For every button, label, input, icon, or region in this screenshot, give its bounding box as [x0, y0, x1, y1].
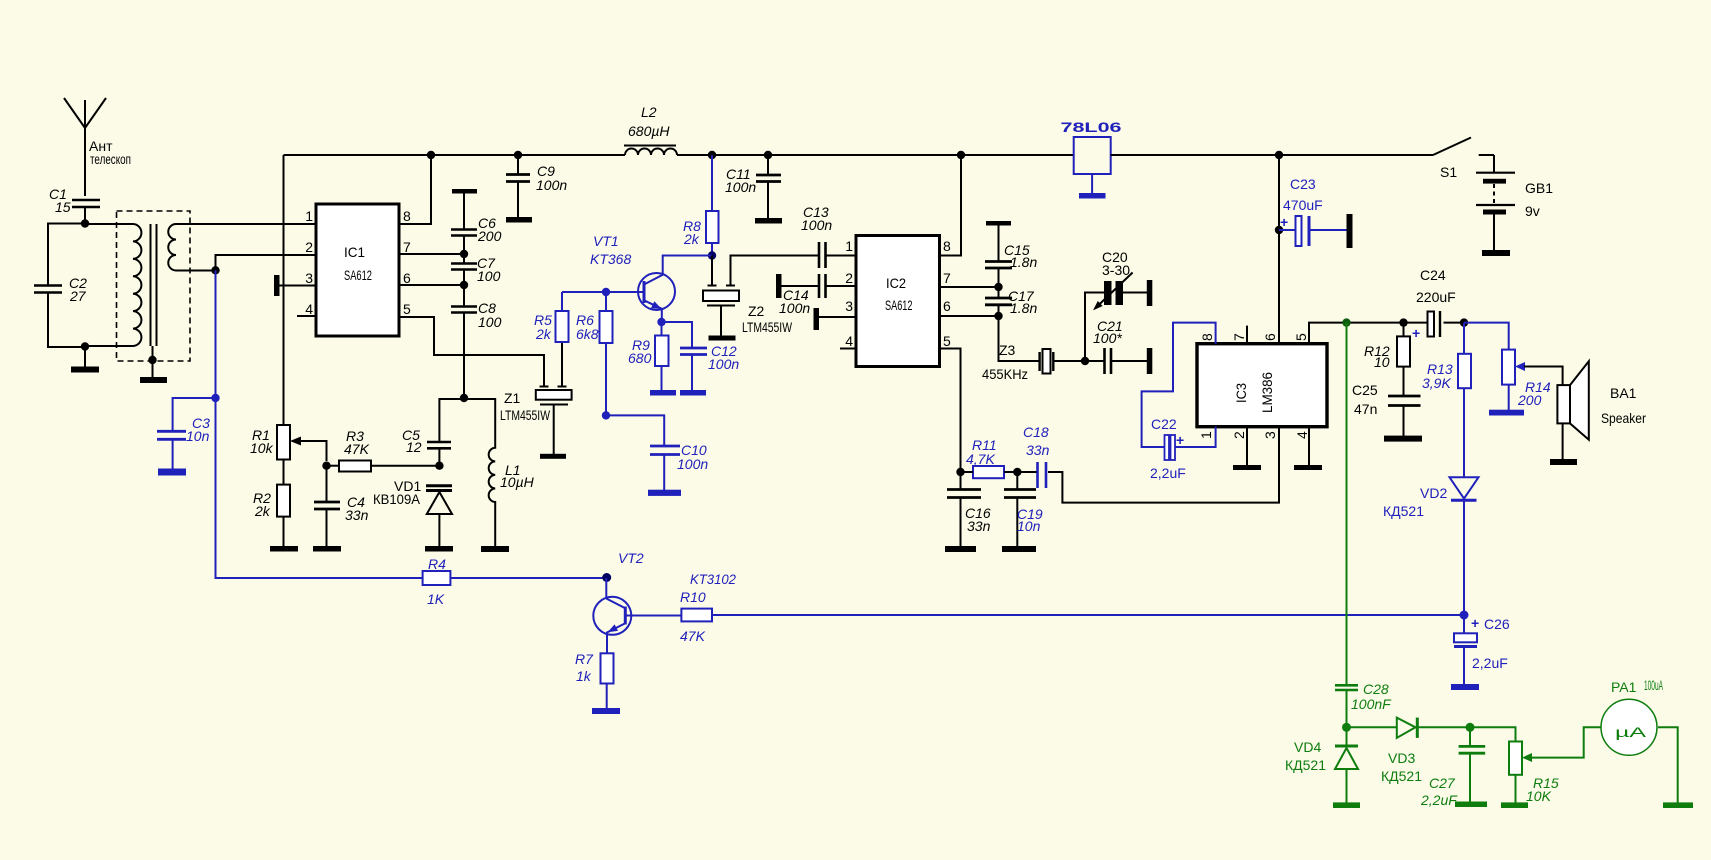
node rail/R8 [708, 151, 716, 159]
potentiometer R1 10k [250, 425, 327, 461]
svg-text:R7: R7 [575, 651, 594, 667]
svg-text:9v: 9v [1525, 203, 1540, 219]
wire IC3 pin4 to ground [1308, 427, 1310, 466]
svg-text:KT3102: KT3102 [690, 571, 736, 587]
wire R14 wiper to speaker [1524, 367, 1563, 386]
ground R7 (blue) [592, 708, 620, 714]
svg-text:7: 7 [943, 270, 951, 286]
ground C11 [755, 218, 782, 224]
svg-text:L2: L2 [641, 104, 657, 120]
svg-text:S1: S1 [1440, 164, 1457, 180]
capacitor C27 2,2uF [1420, 727, 1485, 808]
antenna Ант телескоп [64, 98, 131, 196]
capacitor C8 100 [451, 285, 502, 398]
svg-text:8: 8 [1199, 333, 1215, 341]
svg-text:100n: 100n [801, 217, 832, 233]
IC3 box LM386 [1197, 344, 1327, 427]
ceramic filter Z1 LTM455IW [500, 343, 572, 455]
resistor R2 2k [253, 460, 290, 547]
IC3 pin numbers [1198, 333, 1310, 439]
svg-text:+: + [1412, 325, 1420, 341]
svg-text:10n: 10n [186, 428, 210, 444]
svg-text:8: 8 [403, 208, 411, 224]
svg-text:3: 3 [845, 298, 853, 314]
svg-text:47K: 47K [344, 441, 370, 457]
transistor VT1 KT368 [562, 233, 712, 322]
svg-text:1: 1 [1198, 431, 1214, 439]
svg-text:3: 3 [1262, 431, 1278, 439]
capacitor C11 100n [725, 151, 781, 219]
wire IC1 pin6 to C8 node [399, 284, 464, 286]
svg-text:КД521: КД521 [1383, 503, 1424, 519]
svg-text:+: + [1280, 214, 1288, 230]
svg-text:33n: 33n [1026, 442, 1050, 458]
ground 78L06 (blue) [1079, 193, 1106, 199]
ground C3 (blue) [158, 469, 186, 476]
inductor L2 680uH [624, 104, 677, 155]
svg-text:1.8n: 1.8n [1010, 300, 1037, 316]
node green takeoff [1342, 318, 1350, 326]
resistor R13 3,9K [1422, 323, 1471, 478]
svg-text:100n: 100n [708, 356, 739, 372]
node R4/R6/VT2 base [602, 573, 611, 582]
ground meter (green) [1663, 802, 1693, 808]
ground C12 (blue) [680, 390, 706, 396]
varicap VD1 KB109A [373, 478, 452, 547]
node C24/R13/R14 [1460, 318, 1468, 326]
node antenna/C1/C2/primary [81, 219, 89, 227]
node C28/VD4/VD3 [1342, 723, 1351, 732]
node pin6/C17/Z3 [994, 312, 1002, 320]
svg-text:100n: 100n [725, 179, 756, 195]
node R12 [1399, 318, 1407, 326]
svg-text:VD4: VD4 [1294, 739, 1321, 755]
resistor R7 1k [575, 651, 614, 709]
node VD3/C27/R15 [1466, 723, 1475, 732]
svg-text:КД521: КД521 [1381, 768, 1422, 784]
resistor R6 6k8 [576, 292, 613, 415]
svg-text:LM386: LM386 [1259, 372, 1275, 413]
svg-text:Z3: Z3 [999, 342, 1016, 358]
svg-text:C18: C18 [1023, 424, 1049, 440]
wire IC2 pin6 to C17 [940, 315, 999, 317]
capacitor C15 1.8n [985, 225, 1037, 287]
wire R10 to C26 node (long) [712, 614, 1464, 616]
svg-text:C26: C26 [1484, 616, 1510, 632]
svg-text:Z2: Z2 [748, 303, 765, 319]
svg-text:47K: 47K [680, 628, 706, 644]
wire C2 bottom to ground node [48, 293, 85, 347]
svg-text:100: 100 [478, 314, 502, 330]
svg-text:2,2uF: 2,2uF [1150, 465, 1186, 481]
wire IC3 pin3 to C18 [1048, 427, 1279, 503]
svg-text:100nF: 100nF [1351, 696, 1392, 712]
svg-text:1K: 1K [427, 591, 445, 607]
wire secondary bottom to IC1 pin2 [216, 255, 317, 270]
capacitor C6 200 [451, 193, 502, 254]
svg-text:5: 5 [943, 333, 951, 349]
ground VD1 [425, 546, 453, 552]
terminal plate C23 [1347, 214, 1353, 248]
svg-text:2k: 2k [254, 503, 271, 519]
wire IC1 pin8 to rail [399, 155, 431, 224]
IC2 pin4 stub [840, 348, 856, 350]
svg-text:2: 2 [845, 270, 853, 286]
capacitor C18 33n [1017, 424, 1049, 488]
svg-text:µA: µA [1615, 724, 1647, 740]
resistor R9 680 [628, 322, 669, 391]
transformer core [151, 224, 157, 346]
ground C10 (blue) [648, 490, 681, 496]
trimmer capacitor C20 3-30 [1085, 249, 1147, 361]
svg-text:C24: C24 [1420, 267, 1446, 283]
node R6/C10 branch [602, 411, 610, 419]
ground C27 (green) [1455, 802, 1487, 808]
svg-text:R10: R10 [680, 589, 706, 605]
svg-text:6: 6 [1262, 333, 1278, 341]
svg-text:VT1: VT1 [593, 233, 619, 249]
svg-text:680µH: 680µH [628, 123, 670, 139]
svg-text:6k8: 6k8 [576, 326, 599, 342]
battery GB1 9v [1476, 155, 1553, 251]
wire node down to C3 node (blue) [215, 270, 217, 398]
svg-text:КД521: КД521 [1285, 757, 1326, 773]
wire IC3 pin5 to output node [1309, 323, 1404, 344]
ground IC3 pin4 [1294, 465, 1322, 470]
svg-text:PA1: PA1 [1611, 679, 1637, 695]
svg-text:4,7K: 4,7K [966, 451, 995, 467]
svg-text:100n: 100n [779, 300, 810, 316]
ground C9 [506, 217, 532, 223]
node pin7/C6/C7 [460, 250, 468, 258]
svg-text:100n: 100n [677, 456, 708, 472]
node C26/VD2/long wire [1460, 611, 1469, 620]
wire IC3 pin2 to ground [1246, 427, 1248, 466]
svg-text:2,2uF: 2,2uF [1420, 792, 1458, 808]
IC2 box SA612 [856, 236, 940, 367]
node transformer shield [148, 356, 156, 364]
svg-text:2: 2 [305, 239, 313, 255]
power bar above C6 [452, 189, 477, 194]
IC1 pin3 bypass plate [274, 275, 316, 296]
speaker BA1 [1557, 361, 1646, 459]
svg-text:3-30: 3-30 [1102, 262, 1130, 278]
svg-text:1: 1 [305, 208, 313, 224]
svg-text:10µH: 10µH [500, 474, 535, 490]
svg-text:15: 15 [55, 199, 71, 215]
svg-text:Speaker: Speaker [1601, 410, 1646, 426]
capacitor C19 10n [1004, 472, 1043, 547]
svg-text:LTM455IW: LTM455IW [742, 319, 793, 335]
svg-text:КВ109А: КВ109А [373, 491, 421, 507]
svg-text:78L06: 78L06 [1061, 119, 1122, 135]
ground C25 [1384, 436, 1422, 442]
capacitor C10 100n [606, 415, 708, 490]
inductor L1 10uH [464, 399, 535, 547]
wire meter to ground [1658, 727, 1678, 803]
resistor R11 4,7K [961, 437, 1018, 478]
resistor R8 2k [683, 155, 719, 256]
potentiometer R15 10K [1470, 727, 1602, 804]
svg-text:7: 7 [1231, 333, 1247, 341]
svg-text:C22: C22 [1151, 416, 1177, 432]
svg-text:4: 4 [845, 333, 853, 349]
node IC2 pin5/R11/C16 [956, 468, 964, 476]
ground C26 (blue) [1451, 684, 1479, 690]
svg-text:3,9K: 3,9K [1422, 375, 1451, 391]
IC2 pin numbers [845, 238, 951, 349]
ground Z1 [540, 454, 566, 459]
capacitor C5 12 [402, 399, 464, 466]
node C8/C5/L1 [460, 394, 468, 402]
node IC2 pin8 riser on rail [957, 151, 965, 159]
svg-text:+: + [1176, 432, 1184, 448]
wire down to Z3 [999, 316, 1040, 361]
wire +9V rail mid segment [677, 154, 1074, 156]
resistor R10 47K [680, 589, 712, 644]
wire IC3 pin8 to C22 [1142, 323, 1216, 447]
voltage regulator 78L06 [1061, 119, 1122, 194]
svg-text:телескоп: телескоп [90, 151, 131, 167]
resistor R4 1K [423, 556, 607, 607]
svg-text:10: 10 [1374, 354, 1390, 370]
svg-text:12: 12 [406, 439, 422, 455]
ground R15 (green) [1501, 802, 1528, 808]
svg-text:IC3: IC3 [1233, 383, 1249, 403]
node R11/C19/C18 [1013, 468, 1021, 476]
svg-text:LTM455IW: LTM455IW [500, 407, 551, 423]
potentiometer R14 200 [1464, 323, 1551, 410]
ground GB1 [1482, 250, 1510, 256]
svg-text:200: 200 [477, 228, 502, 244]
svg-text:220uF: 220uF [1416, 289, 1456, 305]
capacitor C2 27 [34, 275, 87, 304]
ground L1 [481, 546, 509, 552]
ground [71, 347, 99, 373]
capacitor C17 1.8n [985, 287, 1037, 316]
power bar above C15 [986, 221, 1011, 226]
node rail/IC3 pin6 feed [1275, 151, 1283, 159]
svg-text:1.8n: 1.8n [1010, 254, 1037, 270]
ground R2 [270, 546, 298, 552]
svg-text:33n: 33n [967, 518, 991, 534]
node R3/C5/VD1 [435, 462, 443, 470]
svg-text:100*: 100* [1093, 330, 1122, 346]
capacitor C16 33n [947, 472, 991, 547]
svg-text:8: 8 [943, 238, 951, 254]
svg-text:100n: 100n [536, 177, 567, 193]
svg-text:10K: 10K [1526, 788, 1552, 804]
diode VD3 KD521 [1347, 718, 1471, 784]
svg-text:47n: 47n [1354, 401, 1377, 417]
svg-text:SA612: SA612 [344, 267, 372, 283]
svg-text:10k: 10k [250, 440, 274, 456]
capacitor C7 100 [451, 254, 501, 285]
IC1 pin numbers [305, 208, 411, 317]
crystal Z3 455KHz [982, 342, 1085, 382]
ground R9 (blue) [650, 390, 676, 396]
svg-text:IC1: IC1 [344, 244, 365, 260]
node secondary bottom [211, 266, 219, 274]
wire rail down to IC3 pin6 [1278, 155, 1280, 344]
svg-text:6: 6 [943, 298, 951, 314]
svg-text:6: 6 [403, 270, 411, 286]
node pin8 riser on rail [427, 151, 435, 159]
transformer primary winding [85, 224, 141, 346]
svg-text:4: 4 [1294, 431, 1310, 439]
capacitor C23 470uF [1279, 176, 1347, 246]
wire IC1 pin5 to Z1 [399, 317, 544, 387]
diode VD2 KD521 [1383, 477, 1479, 615]
svg-text:SA612: SA612 [885, 297, 913, 313]
IC3 pin7 stub [1246, 326, 1248, 344]
node pin7/C15/C17 [994, 283, 1002, 291]
terminal plate C21 [1147, 348, 1153, 374]
node base/R6 [602, 288, 610, 296]
svg-text:1: 1 [845, 238, 853, 254]
capacitor C1 15 [49, 186, 100, 224]
ground C16 [945, 546, 976, 552]
wire rail-left drop to R1 [283, 155, 285, 425]
transformer secondary winding [168, 224, 316, 271]
wire IC2 pin5 down to R11 [940, 349, 961, 473]
node Z3/C20/C21 [1081, 357, 1089, 365]
ground C4 [313, 546, 341, 552]
resistor R5 2k [534, 292, 569, 342]
ceramic filter Z2 LTM455IW [703, 256, 818, 337]
node C23 branch [1275, 226, 1283, 234]
wire +9V rail left segment [284, 154, 626, 156]
capacitor C12 100n [662, 322, 740, 391]
svg-text:680: 680 [628, 350, 652, 366]
transformer T1 dashed box [117, 211, 191, 361]
svg-text:100: 100 [477, 268, 501, 284]
IC1 box SA612 [316, 204, 399, 336]
svg-text:GB1: GB1 [1525, 180, 1553, 196]
svg-text:C27: C27 [1429, 775, 1456, 791]
node pin6/C7/C8 [460, 281, 468, 289]
IC2 pin3 bypass plate [814, 308, 857, 330]
node R1 wiper / R3 / C4 [322, 462, 330, 470]
resistor R12 10 [1364, 323, 1410, 396]
node VT1 emitter [657, 318, 665, 326]
wire green feed from pin5 node down to C28 [1346, 323, 1348, 685]
capacitor C26 2,2uF [1454, 615, 1510, 685]
svg-text:33n: 33n [345, 507, 369, 523]
svg-text:BA1: BA1 [1610, 385, 1637, 401]
svg-text:200: 200 [1517, 392, 1542, 408]
wire IC2 pin7 to C15/C17 [940, 286, 999, 288]
ground C19 [1002, 546, 1036, 552]
svg-text:VD3: VD3 [1388, 750, 1415, 766]
svg-text:C23: C23 [1290, 176, 1316, 192]
node C2/primary bottom [81, 342, 89, 350]
svg-text:2k: 2k [683, 231, 700, 247]
wire C22 to IC3 pin1 [1175, 427, 1216, 447]
wire IC1 pin7 to C7 node [399, 253, 464, 255]
svg-text:3: 3 [305, 270, 313, 286]
capacitor C21 100* [1085, 318, 1147, 374]
capacitor C9 100n [506, 151, 567, 218]
svg-text:VD2: VD2 [1420, 485, 1447, 501]
svg-text:7: 7 [403, 239, 411, 255]
svg-text:C28: C28 [1363, 681, 1389, 697]
wire rail right segment [1111, 154, 1433, 156]
svg-text:IC2: IC2 [886, 275, 906, 291]
svg-text:4: 4 [305, 301, 313, 317]
diode VD4 KD521 [1285, 727, 1358, 803]
ground IC3 pin2 [1233, 465, 1261, 470]
capacitor C14 100n with plate terminal [776, 274, 856, 316]
node R8/VT1 collector/Z2 [708, 251, 716, 259]
svg-text:2,2uF: 2,2uF [1472, 655, 1508, 671]
svg-text:5: 5 [1293, 333, 1309, 341]
IC1 pin4 stub [297, 315, 316, 317]
switch S1 [1433, 138, 1494, 181]
svg-text:10n: 10n [1017, 518, 1041, 534]
ground R14 (blue) [1489, 410, 1524, 416]
capacitor C13 100n [801, 204, 856, 268]
ground VD4 (green) [1333, 802, 1360, 808]
node C3 junction [211, 394, 219, 402]
ground Z2 [709, 336, 736, 341]
terminal plate C20 [1147, 280, 1153, 306]
capacitor C25 47n [1352, 382, 1421, 436]
svg-text:2: 2 [1231, 431, 1247, 439]
wire IC2 pin8 to rail [940, 155, 962, 256]
wire blue node down to R4 [216, 398, 423, 578]
capacitor C24 220uF [1404, 267, 1465, 341]
capacitor C22 2,2uF [1150, 416, 1186, 481]
capacitor C3 10n [157, 398, 216, 469]
wire C1 node to C2 [48, 224, 85, 286]
svg-text:455KHz: 455KHz [982, 366, 1028, 382]
svg-text:KT368: KT368 [590, 251, 631, 267]
svg-text:C25: C25 [1352, 382, 1378, 398]
svg-text:Z1: Z1 [504, 390, 521, 406]
ground transformer [140, 346, 167, 383]
transistor VT2 KT3102 [593, 550, 736, 653]
svg-text:R4: R4 [428, 556, 446, 572]
svg-text:2k: 2k [535, 326, 552, 342]
svg-text:100uA: 100uA [1644, 677, 1663, 693]
svg-text:470uF: 470uF [1283, 197, 1323, 213]
capacitor C4 33n [314, 466, 369, 547]
resistor R3 47K [327, 428, 440, 472]
meter PA1 100uA [1601, 677, 1663, 755]
capacitor C28 100nF [1335, 681, 1392, 727]
svg-text:1k: 1k [576, 668, 592, 684]
ground speaker [1550, 459, 1577, 465]
svg-text:5: 5 [403, 301, 411, 317]
svg-text:VT2: VT2 [618, 550, 644, 566]
svg-text:+: + [1471, 615, 1479, 631]
svg-text:27: 27 [69, 288, 87, 304]
